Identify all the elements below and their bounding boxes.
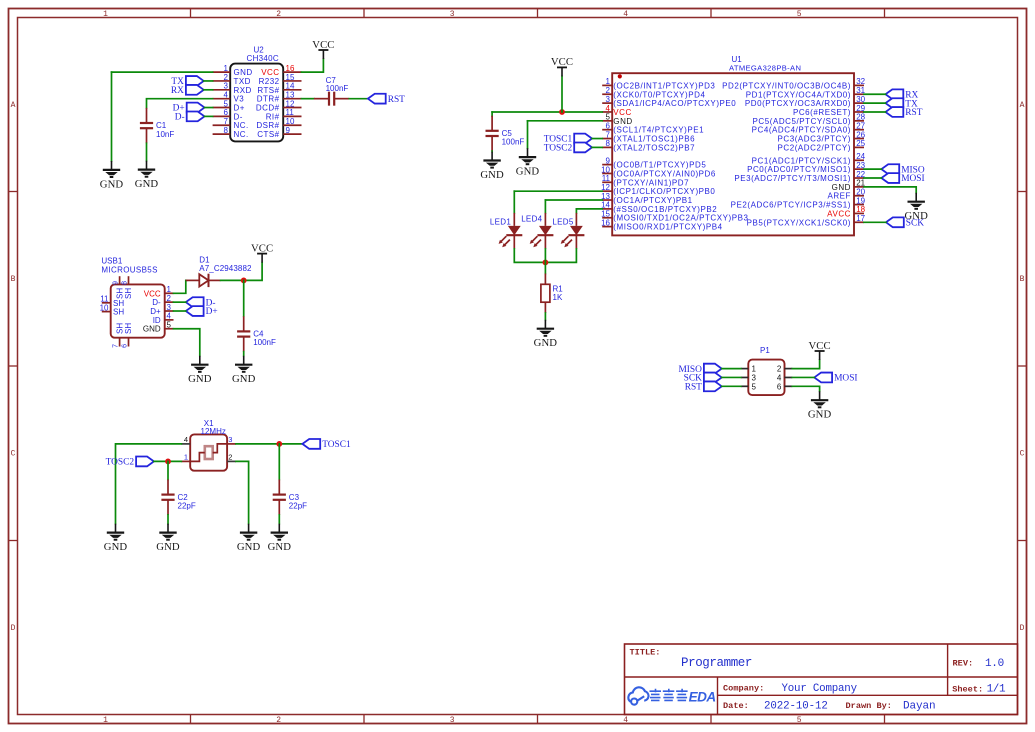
- svg-text:VCC: VCC: [261, 68, 279, 77]
- USB1 shield pins bottom: [113, 323, 134, 348]
- U2 pin 10 DSR#: [256, 117, 301, 130]
- svg-text:D: D: [1020, 624, 1025, 633]
- P1 pin 5: [741, 382, 757, 391]
- ground GND under P1: [808, 391, 832, 420]
- svg-text:D+: D+: [150, 307, 161, 316]
- U2 pin 5 D+: [213, 99, 245, 112]
- svg-text:4: 4: [623, 10, 628, 19]
- ground GND under C4: [232, 356, 256, 385]
- svg-text:GND: GND: [237, 541, 261, 553]
- U1 pin 17 PB5(PTCXY/XCK1/SCK0): [747, 214, 866, 227]
- U1 pin 30 PD0(PTCXY/OC3A/RXD0): [745, 95, 866, 108]
- U2 pin 15 R232: [259, 73, 302, 86]
- svg-text:A: A: [1020, 101, 1025, 110]
- svg-text:12MHz: 12MHz: [201, 427, 226, 436]
- net label SCK at P1: [684, 373, 722, 384]
- svg-text:D-: D-: [234, 112, 243, 121]
- svg-text:Date:: Date:: [723, 701, 749, 711]
- svg-text:NC.: NC.: [234, 121, 249, 130]
- svg-text:4: 4: [777, 373, 782, 382]
- svg-text:10: 10: [601, 165, 610, 174]
- VCC power flag above U2: [312, 39, 334, 59]
- P1 pin 6: [777, 382, 792, 391]
- U1 pin 15 (MOSI0/TXD1/OC2A/PTCXY)PB3: [601, 210, 748, 223]
- svg-text:PC6(#RESET): PC6(#RESET): [793, 108, 851, 117]
- wire down to LED5: [575, 209, 577, 213]
- USB1 pin 5 GND: [143, 321, 174, 334]
- svg-text:2: 2: [167, 294, 172, 303]
- svg-text:MOSI: MOSI: [901, 174, 924, 184]
- net label MISO at U1: [881, 164, 924, 175]
- VCC power flag above D1: [251, 242, 273, 262]
- svg-text:8: 8: [224, 126, 229, 135]
- chip U2 CH340C body: [230, 45, 283, 141]
- svg-text:32: 32: [856, 77, 865, 86]
- USB1 pin 10 SH: [100, 303, 125, 316]
- svg-text:GND: GND: [808, 409, 832, 421]
- U1 pin 31 PD1(PTCXY/OC4A/TXD0): [746, 86, 866, 99]
- svg-text:26: 26: [856, 130, 865, 139]
- svg-text:9: 9: [286, 126, 291, 135]
- svg-text:2022-10-12: 2022-10-12: [764, 700, 828, 712]
- U1 pin 11 (PTCXY/AIN1)PD7: [602, 174, 689, 187]
- U1 pin 8 (XTAL2/TOSC2)PB7: [602, 139, 695, 152]
- capacitor C3 22pF: [273, 480, 307, 515]
- svg-text:TXD: TXD: [234, 77, 251, 86]
- svg-text:(OC2B/INT1/PTCXY)PD3: (OC2B/INT1/PTCXY)PD3: [613, 81, 715, 90]
- svg-text:LED4: LED4: [521, 215, 542, 224]
- USB1 pin 4 ID: [153, 312, 174, 325]
- net label D+ at U2: [173, 103, 205, 114]
- svg-text:LED5: LED5: [552, 217, 573, 226]
- svg-text:1: 1: [752, 365, 757, 374]
- U1 pin 7 (XTAL1/TOSC1)PB6: [602, 130, 695, 143]
- svg-text:SH: SH: [124, 288, 133, 299]
- svg-text:ID: ID: [153, 316, 161, 325]
- svg-text:RST: RST: [388, 95, 405, 105]
- capacitor C4 100nF: [237, 316, 276, 351]
- svg-text:Company:: Company:: [723, 683, 764, 693]
- wire RST: [864, 111, 886, 113]
- wire D+: [205, 107, 213, 109]
- svg-text:2: 2: [276, 716, 281, 725]
- svg-text:11: 11: [100, 295, 109, 304]
- crystal X1 12MHz body: [190, 419, 227, 471]
- net label MISO at P1: [678, 364, 721, 375]
- wire down to C4: [243, 280, 245, 316]
- svg-text:GND: GND: [832, 183, 851, 192]
- svg-text:GND: GND: [613, 117, 632, 126]
- resistor R1 1K: [541, 274, 563, 314]
- svg-text:Sheet:: Sheet:: [952, 684, 983, 694]
- svg-text:GND: GND: [188, 373, 212, 385]
- capacitor C1 10nF: [140, 108, 174, 143]
- U1 pin 24 PC1(ADC1/PTCY/SCK1): [752, 152, 866, 165]
- wire TX: [204, 80, 213, 82]
- wire RX: [864, 93, 886, 95]
- svg-text:D-: D-: [175, 113, 185, 123]
- wire VCC to U1 pin4: [492, 111, 602, 113]
- svg-text:4: 4: [167, 312, 172, 321]
- svg-text:9: 9: [113, 281, 120, 285]
- company field: [723, 683, 858, 695]
- wire down to C3: [278, 444, 280, 480]
- U2 pin 16 VCC: [261, 64, 301, 77]
- X1 pin 2: [227, 453, 236, 462]
- svg-text:B: B: [11, 275, 16, 284]
- wire MISO: [864, 168, 881, 170]
- X1 pin 1: [181, 453, 190, 462]
- wire D- usb: [174, 301, 186, 303]
- svg-text:5: 5: [797, 716, 802, 725]
- svg-text:1: 1: [606, 77, 611, 86]
- wire RST P1: [722, 385, 741, 387]
- svg-text:(MOSI0/TXD1/OC2A/PTCXY)PB3: (MOSI0/TXD1/OC2A/PTCXY)PB3: [613, 214, 748, 223]
- svg-text:RX: RX: [171, 86, 184, 96]
- net label RST at P1: [685, 381, 722, 392]
- net label SCK at U1: [886, 217, 924, 228]
- wire U2 pin1 to GND net: [112, 71, 213, 73]
- USB1 pin 2 D-: [152, 294, 173, 307]
- U1 pin 27 PC4(ADC4/PTCY/SDA0): [752, 121, 866, 134]
- wire D1 to VCC: [221, 263, 263, 281]
- wire U1 pin 12 to LED1: [514, 190, 602, 192]
- P1 pin 1: [741, 365, 757, 374]
- U2 pin 8 NC.: [213, 126, 249, 139]
- svg-text:RXD: RXD: [234, 86, 252, 95]
- svg-text:PD1(PTCXY/OC4A/TXD0): PD1(PTCXY/OC4A/TXD0): [746, 90, 851, 99]
- ground GND under X1 pin2: [237, 524, 261, 553]
- wire U1 pin5 GND: [528, 120, 603, 122]
- svg-text:D+: D+: [234, 104, 245, 113]
- svg-text:MOSI: MOSI: [834, 374, 857, 384]
- USB1 pin 3 D+: [150, 303, 173, 316]
- svg-text:5: 5: [167, 321, 172, 330]
- U2 pin 3 RXD: [213, 82, 252, 95]
- wire GND net vertical: [111, 72, 113, 161]
- svg-text:15: 15: [601, 210, 610, 219]
- title block: [625, 644, 1018, 715]
- P1 pin 3: [741, 373, 757, 382]
- svg-text:PE3(ADC7/PTCY/T3/MOSI1): PE3(ADC7/PTCY/T3/MOSI1): [734, 174, 851, 183]
- svg-text:ATMEGA328PB-AN: ATMEGA328PB-AN: [729, 64, 801, 73]
- svg-text:1K: 1K: [553, 293, 563, 302]
- svg-text:24: 24: [856, 152, 865, 161]
- wire RX: [204, 89, 213, 91]
- U1 pin 23 PC0(ADC0/PTCY/MISO1): [747, 161, 866, 174]
- wire SCK: [864, 221, 886, 223]
- wire TOSC2: [592, 146, 602, 148]
- svg-text:8: 8: [121, 281, 128, 285]
- svg-text:GND: GND: [143, 325, 161, 334]
- wire LED4 to bus to R1: [544, 249, 546, 274]
- U1 pin 3 (SDA1/ICP4/ACO/PTCXY)PE0: [602, 95, 736, 108]
- connector USB1 MICROUSB5S body: [101, 257, 164, 338]
- USB1 pin 1 VCC: [144, 285, 174, 298]
- svg-text:PD0(PTCXY/OC3A/RXD0): PD0(PTCXY/OC3A/RXD0): [745, 99, 851, 108]
- U2 pin 13 DTR#: [257, 90, 302, 103]
- net label TX at U1: [886, 98, 919, 109]
- svg-text:2: 2: [276, 10, 281, 19]
- svg-text:SH: SH: [113, 308, 124, 317]
- svg-text:D: D: [11, 624, 16, 633]
- svg-text:2: 2: [228, 453, 232, 462]
- svg-text:19: 19: [856, 196, 865, 205]
- wire C7 to RST: [349, 98, 368, 100]
- svg-text:10: 10: [100, 303, 109, 312]
- U1 pin 5 GND: [602, 113, 633, 126]
- svg-text:GND: GND: [268, 541, 292, 553]
- wire SCK P1: [722, 376, 741, 378]
- wire VCC drop to C5: [491, 112, 493, 116]
- P1 pin 4: [777, 373, 792, 382]
- svg-text:DSR#: DSR#: [256, 121, 279, 130]
- U1 pin 14 (#SS0/OC1B/PTCXY)PB2: [601, 201, 717, 214]
- U1 pin 1 (OC2B/INT1/PTCXY)PD3: [602, 77, 715, 90]
- svg-text:RTS#: RTS#: [257, 86, 279, 95]
- svg-text:U2: U2: [254, 45, 265, 54]
- junction LED bus to R1: [543, 260, 549, 266]
- svg-text:(SCL1/T4/PTCXY)PE1: (SCL1/T4/PTCXY)PE1: [613, 126, 704, 135]
- net label MOSI at U1: [881, 173, 924, 184]
- svg-text:Dayan: Dayan: [903, 700, 936, 712]
- svg-text:2: 2: [224, 73, 229, 82]
- net label RX: [171, 85, 204, 96]
- svg-text:PC3(ADC3/PTCY): PC3(ADC3/PTCY): [778, 135, 852, 144]
- svg-text:GND: GND: [534, 337, 558, 349]
- net label RST: [368, 94, 405, 105]
- svg-text:PB5(PTCXY/XCK1/SCK0): PB5(PTCXY/XCK1/SCK0): [747, 218, 851, 227]
- U1 pin 25 PC2(ADC2/PTCY): [778, 139, 866, 152]
- wire GND drop: [527, 121, 529, 148]
- svg-text:3: 3: [228, 435, 232, 444]
- svg-text:Programmer: Programmer: [681, 656, 752, 670]
- U1 pin 22 PE3(ADC7/PTCY/T3/MOSI1): [734, 170, 865, 183]
- net label TOSC2 at U1: [544, 142, 592, 153]
- svg-text:(SDA1/ICP4/ACO/PTCXY)PE0: (SDA1/ICP4/ACO/PTCXY)PE0: [613, 99, 736, 108]
- svg-text:4: 4: [184, 435, 188, 444]
- svg-text:11: 11: [602, 174, 611, 183]
- logo JLC EDA: [628, 687, 715, 704]
- U1 pin 13 (OC1A/PTCXY)PB1: [601, 192, 693, 205]
- svg-text:DCD#: DCD#: [256, 104, 280, 113]
- wire MOSI: [864, 177, 881, 179]
- wire TOSC1: [592, 138, 602, 140]
- svg-text:6: 6: [606, 121, 611, 130]
- svg-text:27: 27: [856, 121, 865, 130]
- svg-text:VCC: VCC: [613, 108, 632, 117]
- svg-text:5: 5: [224, 99, 229, 108]
- ground GND under USB1: [188, 356, 212, 385]
- svg-text:3: 3: [167, 303, 172, 312]
- wire down to C2: [167, 461, 169, 479]
- svg-text:REV:: REV:: [953, 659, 974, 669]
- svg-text:(XTAL1/TOSC1)PB6: (XTAL1/TOSC1)PB6: [613, 135, 695, 144]
- svg-text:NC.: NC.: [234, 130, 249, 139]
- title text Programmer: [630, 648, 753, 670]
- svg-text:5: 5: [752, 382, 757, 391]
- ground GND right of U1: [904, 193, 928, 222]
- U1 pin 12 (ICP1/CLKO/PTCXY)PB0: [601, 183, 715, 196]
- svg-text:PC2(ADC2/PTCY): PC2(ADC2/PTCY): [778, 143, 852, 152]
- svg-text:TOSC2: TOSC2: [544, 144, 573, 154]
- svg-text:(XTAL2/TOSC2)PB7: (XTAL2/TOSC2)PB7: [613, 143, 695, 152]
- svg-text:A7_C2943882: A7_C2943882: [199, 264, 252, 273]
- U1 pin 19 PE2(ADC6/PTCY/ICP3/#SS1): [731, 196, 866, 209]
- svg-text:SCK: SCK: [906, 218, 924, 228]
- svg-text:SH: SH: [115, 323, 124, 334]
- svg-text:13: 13: [286, 90, 295, 99]
- svg-text:C: C: [11, 450, 16, 459]
- USB1 shield pins top: [113, 276, 134, 299]
- net label TX: [171, 76, 203, 87]
- svg-text:R1: R1: [553, 284, 564, 293]
- svg-text:8: 8: [606, 139, 611, 148]
- svg-text:22pF: 22pF: [178, 501, 196, 510]
- wire MISO P1: [722, 368, 741, 370]
- svg-text:CH340C: CH340C: [247, 54, 279, 63]
- wire DTR to C7: [302, 98, 314, 100]
- X1 pin 3: [227, 435, 236, 444]
- svg-text:GND: GND: [516, 166, 540, 178]
- svg-text:10: 10: [286, 117, 295, 126]
- svg-text:RST: RST: [905, 108, 922, 118]
- svg-text:PC4(ADC4/PTCY/SDA0): PC4(ADC4/PTCY/SDA0): [752, 126, 851, 135]
- svg-text:LED1: LED1: [490, 217, 511, 226]
- U1 pin 18 AVCC: [827, 205, 865, 218]
- wire D+ usb: [174, 310, 186, 312]
- svg-text:1.0: 1.0: [985, 658, 1004, 670]
- wire down to LED4: [544, 200, 546, 213]
- U1 pin 32 PD2(PTCXY/INT0/OC3B/OC4B): [722, 77, 866, 90]
- wire U1 pin 14 to LED5: [576, 208, 602, 210]
- wire X1 pin4 to ground: [116, 444, 182, 524]
- svg-text:CTS#: CTS#: [257, 130, 279, 139]
- svg-text:(PTCXY/AIN1)PD7: (PTCXY/AIN1)PD7: [613, 178, 689, 187]
- wire U1 pin 13 to LED4: [545, 199, 602, 201]
- svg-text:11: 11: [286, 108, 295, 117]
- svg-text:4: 4: [606, 104, 611, 113]
- wire C4 to ground: [243, 352, 245, 356]
- wire R1 to ground: [544, 313, 546, 320]
- svg-text:3: 3: [606, 95, 611, 104]
- capacitor C7 100nF: [314, 76, 349, 106]
- svg-text:1/1: 1/1: [987, 683, 1006, 695]
- wire down to LED1: [513, 191, 515, 213]
- svg-text:D-: D-: [152, 298, 161, 307]
- svg-text:22pF: 22pF: [289, 501, 307, 510]
- svg-text:Your Company: Your Company: [782, 683, 858, 695]
- svg-text:DTR#: DTR#: [257, 95, 280, 104]
- U2 pin 7 NC.: [213, 117, 249, 130]
- svg-text:PC1(ADC1/PTCY/SCK1): PC1(ADC1/PTCY/SCK1): [752, 156, 851, 165]
- U1 pin 26 PC3(ADC3/PTCY): [778, 130, 866, 143]
- U1 pin 28 PC5(ADC5/PTCY/SCL0): [753, 113, 866, 126]
- svg-text:TOSC2: TOSC2: [106, 458, 135, 468]
- svg-text:VCC: VCC: [312, 39, 334, 51]
- svg-text:10nF: 10nF: [156, 130, 174, 139]
- svg-text:TITLE:: TITLE:: [630, 648, 661, 658]
- svg-text:5: 5: [797, 10, 802, 19]
- net label D- at USB1: [186, 297, 216, 308]
- svg-text:(XCK0/T0/PTCXY)PD4: (XCK0/T0/PTCXY)PD4: [613, 90, 705, 99]
- wire C1 to ground: [146, 143, 148, 160]
- svg-text:MICROUSB5S: MICROUSB5S: [101, 265, 157, 274]
- wire U2 VCC: [302, 59, 324, 72]
- wire TOSC2 to X1: [154, 460, 181, 462]
- svg-text:100nF: 100nF: [253, 338, 276, 347]
- svg-text:4: 4: [623, 716, 628, 725]
- wire C3 to ground: [278, 515, 280, 524]
- net label TOSC1 at X1: [302, 439, 351, 450]
- LED LED5: [552, 213, 584, 249]
- svg-text:B: B: [1020, 275, 1025, 284]
- svg-text:GND: GND: [104, 541, 128, 553]
- U1 pin 9 (OC0B/T1/PTCXY)PD5: [602, 156, 706, 169]
- ground GND far left: [104, 524, 128, 553]
- wire X1 pin3 to TOSC1: [236, 443, 302, 445]
- U1 pin 21 GND: [832, 179, 866, 192]
- svg-text:A: A: [11, 101, 16, 110]
- date and drawn by field: [723, 700, 936, 712]
- X1 pin 4: [181, 435, 190, 444]
- net label TOSC2 at X1: [106, 457, 154, 468]
- svg-text:28: 28: [856, 113, 865, 122]
- wire LED cathode bus: [514, 249, 576, 263]
- svg-text:3: 3: [450, 716, 455, 725]
- svg-text:SH: SH: [124, 323, 133, 334]
- svg-text:PC5(ADC5/PTCY/SCL0): PC5(ADC5/PTCY/SCL0): [753, 117, 851, 126]
- capacitor C5 100nF: [486, 116, 525, 151]
- chip U1 ATMEGA328PB-AN body: [612, 55, 854, 235]
- diode D1 A7_C2943882: [186, 256, 252, 288]
- svg-text:SH: SH: [115, 288, 124, 299]
- svg-text:16: 16: [601, 218, 610, 227]
- svg-text:18: 18: [856, 205, 865, 214]
- U1 pin 29 PC6(#RESET): [793, 104, 866, 117]
- svg-text:C: C: [1020, 450, 1025, 459]
- sheet field: [952, 683, 1006, 695]
- svg-text:TOSC1: TOSC1: [322, 440, 351, 450]
- frame column numbers: [103, 10, 802, 725]
- ground GND under C2: [156, 524, 180, 553]
- U2 pin 14 RTS#: [257, 82, 301, 95]
- wire D-: [205, 115, 213, 117]
- svg-text:AREF: AREF: [827, 192, 851, 201]
- svg-text:1: 1: [103, 10, 108, 19]
- wire C5 to ground: [491, 150, 493, 153]
- net label MOSI at P1: [814, 373, 857, 384]
- svg-text:(OC1A/PTCXY)PB1: (OC1A/PTCXY)PB1: [613, 196, 692, 205]
- svg-text:7: 7: [113, 344, 120, 348]
- revision REV 1.0: [953, 658, 1004, 670]
- svg-text:(ICP1/CLKO/PTCXY)PB0: (ICP1/CLKO/PTCXY)PB0: [613, 187, 715, 196]
- wire P1 pin2 to VCC: [792, 360, 819, 369]
- wire V3 to C1: [147, 99, 213, 108]
- U2 pin 6 D-: [213, 108, 243, 121]
- U1 pin 10 (OC0A/PTCXY/AIN0)PD6: [601, 165, 716, 178]
- U2 pin 11 RI#: [266, 108, 302, 121]
- svg-text:16: 16: [286, 64, 295, 73]
- ground GND under C3: [268, 524, 292, 553]
- USB1 pin 11 SH: [100, 295, 124, 308]
- svg-text:1: 1: [103, 716, 108, 725]
- svg-text:100nF: 100nF: [502, 138, 525, 147]
- svg-text:1: 1: [184, 453, 188, 462]
- svg-text:GND: GND: [480, 169, 504, 181]
- U1 pin 16 (MISO0/RXD1/PTCXY)PB4: [601, 218, 723, 231]
- ground GND near U1 pin5: [516, 148, 540, 177]
